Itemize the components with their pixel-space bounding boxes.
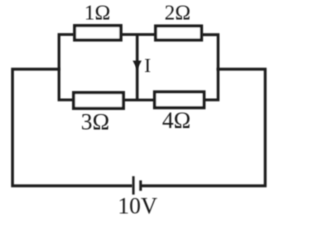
wire left loop: connector, outer-left vertical, bottom wire to battery (13, 69, 133, 186)
resistor R1 box (75, 26, 121, 40)
battery B1 short plate (139, 180, 142, 190)
current arrow I (pointing down) (133, 61, 142, 70)
battery B1 long plate (132, 176, 134, 194)
wire left branch: top-left stub, inner-left vertical, bottom-left stub (59, 35, 74, 100)
svg-text:10V: 10V (118, 194, 158, 219)
svg-text:4Ω: 4Ω (162, 108, 191, 133)
wire right branch: top-right stub, inner-right vertical, bottom-right stub (202, 35, 218, 100)
resistor R4 box (155, 92, 204, 108)
svg-text:I: I (144, 55, 151, 77)
wire top middle (node between 1ohm and 2ohm) (121, 33, 156, 36)
wire right loop: connector, outer-right vertical, bottom wire from battery (142, 69, 266, 186)
svg-text:3Ω: 3Ω (81, 109, 110, 134)
svg-text:1Ω: 1Ω (84, 1, 110, 25)
wire middle vertical branch (136, 35, 139, 101)
resistor R2 box (156, 26, 202, 40)
resistor R3 box (74, 93, 124, 109)
svg-text:2Ω: 2Ω (165, 1, 191, 25)
wire bottom middle (node between 3ohm and 4ohm) (124, 99, 155, 102)
